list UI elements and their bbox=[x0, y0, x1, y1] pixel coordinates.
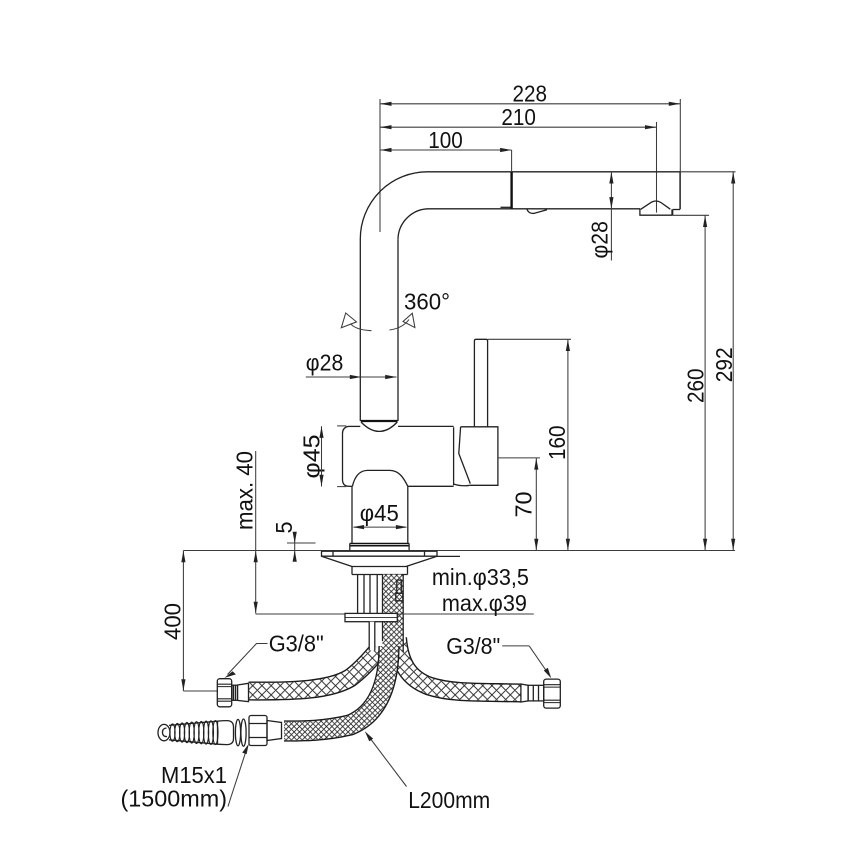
svg-text:292: 292 bbox=[711, 347, 737, 382]
dimension phi45 body left bbox=[299, 426, 347, 487]
svg-text:G3/8": G3/8" bbox=[446, 633, 500, 659]
svg-text:G3/8": G3/8" bbox=[269, 630, 324, 656]
max phi39 label bbox=[442, 590, 527, 616]
svg-text:(1500mm): (1500mm) bbox=[121, 786, 228, 812]
svg-text:φ28: φ28 bbox=[306, 350, 344, 376]
G3/8 label right bbox=[446, 633, 551, 679]
svg-text:max. 40: max. 40 bbox=[232, 451, 258, 530]
svg-text:360°: 360° bbox=[404, 289, 450, 315]
svg-text:M15x1: M15x1 bbox=[161, 762, 227, 788]
spray head joint bbox=[501, 150, 548, 213]
svg-text:L200mm: L200mm bbox=[408, 787, 490, 813]
clip on shank bbox=[396, 580, 403, 601]
dimension 210 bbox=[380, 104, 657, 213]
svg-text:228: 228 bbox=[513, 81, 548, 107]
pipe-body collar bbox=[361, 421, 398, 431]
dimension 260 bbox=[673, 215, 709, 550]
svg-text:min.φ33,5: min.φ33,5 bbox=[432, 564, 529, 590]
360 swivel indicator bbox=[341, 289, 450, 331]
escutcheon bbox=[322, 551, 461, 575]
right supply hose bbox=[398, 638, 521, 693]
L200mm label bbox=[365, 731, 490, 813]
svg-text:max.φ39: max.φ39 bbox=[442, 590, 527, 616]
mounting bracket bbox=[256, 613, 534, 621]
G3/8 label left bbox=[224, 630, 323, 678]
dimension 160 bbox=[488, 339, 571, 550]
base ring bbox=[350, 543, 409, 550]
aerator end piece bbox=[640, 201, 673, 215]
deck line bbox=[183, 550, 735, 552]
dimension phi45 stem bbox=[353, 500, 408, 529]
svg-text:φ45: φ45 bbox=[299, 435, 325, 479]
svg-text:φ45: φ45 bbox=[360, 500, 399, 526]
dimension phi28 spout bbox=[587, 172, 614, 261]
svg-text:100: 100 bbox=[428, 127, 463, 153]
dimension 292 bbox=[680, 172, 737, 551]
hatch column (hose bundle through deck) bbox=[383, 575, 404, 653]
min phi33,5 label bbox=[432, 564, 529, 590]
M15x1 corrugated hose end bbox=[158, 716, 282, 747]
svg-text:260: 260 bbox=[682, 369, 708, 404]
left supply hose bbox=[249, 649, 380, 691]
svg-text:160: 160 bbox=[544, 426, 570, 461]
right G3/8 nut bbox=[521, 679, 560, 708]
dimension max40 bbox=[232, 451, 258, 614]
dimension 100 bbox=[380, 127, 512, 153]
dimension 228 bbox=[380, 81, 680, 232]
riser pipe bbox=[360, 239, 398, 421]
svg-text:70: 70 bbox=[511, 492, 537, 518]
svg-text:φ28: φ28 bbox=[587, 221, 613, 259]
dimension 70 bbox=[498, 458, 540, 551]
faucet body bbox=[343, 426, 454, 486]
dimension phi28 riser bbox=[306, 350, 397, 380]
below-deck shank bbox=[358, 575, 378, 651]
central spray hose bbox=[284, 646, 389, 731]
svg-text:400: 400 bbox=[160, 603, 186, 640]
dimension 400 bbox=[160, 551, 218, 692]
M15x1 label bbox=[121, 744, 249, 812]
svg-text:210: 210 bbox=[501, 104, 536, 130]
left G3/8 nut bbox=[217, 679, 248, 707]
spout outline bbox=[360, 172, 680, 240]
handle bbox=[454, 339, 498, 485]
dimension 5 bbox=[271, 522, 316, 562]
lower stem bbox=[352, 486, 408, 543]
